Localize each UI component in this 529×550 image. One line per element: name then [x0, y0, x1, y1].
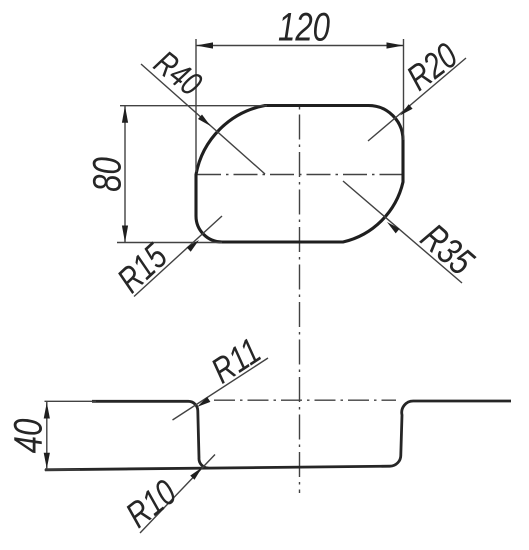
svg-text:R35: R35 [413, 216, 483, 284]
svg-text:R40: R40 [147, 44, 209, 104]
svg-text:R10: R10 [118, 472, 183, 535]
svg-text:R15: R15 [110, 235, 176, 300]
svg-text:120: 120 [278, 5, 330, 50]
svg-text:R11: R11 [204, 330, 267, 391]
svg-text:40: 40 [6, 419, 51, 454]
svg-text:80: 80 [85, 157, 130, 192]
svg-text:R20: R20 [399, 35, 464, 98]
